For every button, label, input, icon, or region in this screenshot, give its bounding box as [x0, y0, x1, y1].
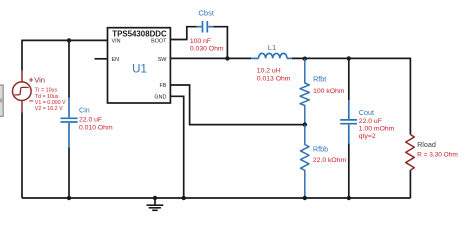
svg-text:22.0 uF: 22.0 uF — [79, 117, 102, 124]
svg-text:EN: EN — [112, 57, 120, 63]
node: FB junction — [303, 122, 307, 126]
svg-text:100 kOhm: 100 kOhm — [313, 88, 345, 95]
svg-text:V1 = 0.000 V: V1 = 0.000 V — [35, 100, 66, 106]
svg-text:Td = 10us: Td = 10us — [35, 94, 59, 100]
svg-text:22.0 uF: 22.0 uF — [359, 118, 382, 125]
capacitor Cout — [340, 100, 357, 144]
svg-text:Tr = 10us: Tr = 10us — [35, 88, 58, 94]
svg-text:VIN: VIN — [112, 38, 121, 44]
resistor Rfbb — [301, 125, 310, 198]
svg-text:0.010 Ohm: 0.010 Ohm — [79, 125, 113, 132]
capacitor Cbst — [197, 21, 214, 33]
svg-text:100 nF: 100 nF — [190, 38, 211, 45]
node: Cout bottom junction — [347, 196, 351, 200]
svg-text:0.013 Ohm: 0.013 Ohm — [257, 75, 291, 82]
wire: EN stub — [95, 58, 108, 60]
wire: Rload bottom — [409, 170, 411, 198]
svg-text:Rfbb: Rfbb — [313, 145, 328, 154]
svg-text:−: − — [29, 96, 34, 105]
svg-text:22.0 kOhm: 22.0 kOhm — [313, 157, 347, 164]
label +Vin — [29, 76, 45, 106]
svg-text:BOOT: BOOT — [151, 38, 167, 44]
wire: Cout branch bottom black — [348, 144, 350, 198]
svg-text:0.030 Ohm: 0.030 Ohm — [190, 46, 224, 53]
node: Rfbt top junction — [303, 57, 307, 61]
node: Cout top junction — [347, 56, 351, 60]
resistor Rfbt — [300, 59, 309, 125]
svg-text:U1: U1 — [132, 64, 147, 76]
node: GND bottom junction — [182, 196, 186, 200]
svg-text:+: + — [29, 76, 34, 85]
wire: right branch to Rload — [409, 58, 411, 135]
wire: GND path — [170, 96, 183, 198]
node: Rfbb bottom junction — [303, 196, 307, 200]
wire: output rail L1 to right corner — [292, 57, 411, 59]
svg-text:SW: SW — [158, 57, 168, 63]
capacitor Cin — [61, 98, 78, 148]
svg-text:Cbst: Cbst — [198, 8, 215, 17]
svg-text:GND: GND — [154, 95, 166, 101]
node: ground junction — [153, 196, 157, 200]
inductor L1 — [251, 53, 292, 58]
node: Cin top junction — [67, 38, 71, 42]
wire: SW to L1 — [170, 57, 251, 59]
voltage source V1 (Vin) — [12, 71, 31, 113]
svg-text:Cin: Cin — [79, 105, 90, 114]
wire: BOOT to Cbst — [170, 27, 196, 40]
svg-text:Vin: Vin — [34, 76, 45, 85]
svg-text:R = 3.30 Ohm: R = 3.30 Ohm — [417, 152, 458, 159]
svg-text:V2 = 16.2 V: V2 = 16.2 V — [35, 106, 63, 112]
resistor Rload — [406, 135, 415, 171]
wire: top rail Vin to IC VIN pin — [22, 39, 108, 41]
ground — [147, 198, 164, 210]
svg-text:Rfbt: Rfbt — [313, 74, 326, 83]
node: Cbst/SW junction — [225, 56, 229, 60]
wire: Cbst to SW node — [213, 27, 227, 59]
wire: Cout branch top black — [348, 58, 350, 100]
wire: Cin branch (top black) — [68, 40, 70, 97]
svg-text:Rload: Rload — [417, 140, 436, 149]
svg-text:qty=2: qty=2 — [359, 133, 376, 140]
svg-text:L1: L1 — [268, 43, 276, 52]
wire: bottom ground rail — [22, 197, 411, 199]
wire: Vin branch vertical (top black part) — [21, 40, 23, 71]
wire: Vin branch vertical (bottom black part) — [21, 113, 23, 199]
wire: Cin branch (bottom black) — [68, 148, 70, 199]
svg-text:10.2 uH: 10.2 uH — [257, 67, 281, 74]
wire: FB path — [170, 85, 304, 125]
svg-text:1.00 mOhm: 1.00 mOhm — [359, 126, 395, 133]
voltage source parameter text — [35, 88, 66, 113]
svg-text:Cout: Cout — [359, 108, 374, 117]
left-edge UI scrollbar fragment — [0, 85, 3, 116]
svg-text:FB: FB — [160, 83, 167, 89]
op-amp U1 IC box TPS54308DDC — [108, 28, 171, 103]
node: Cin bottom junction — [67, 196, 71, 200]
svg-text:TPS54308DDC: TPS54308DDC — [112, 29, 167, 38]
